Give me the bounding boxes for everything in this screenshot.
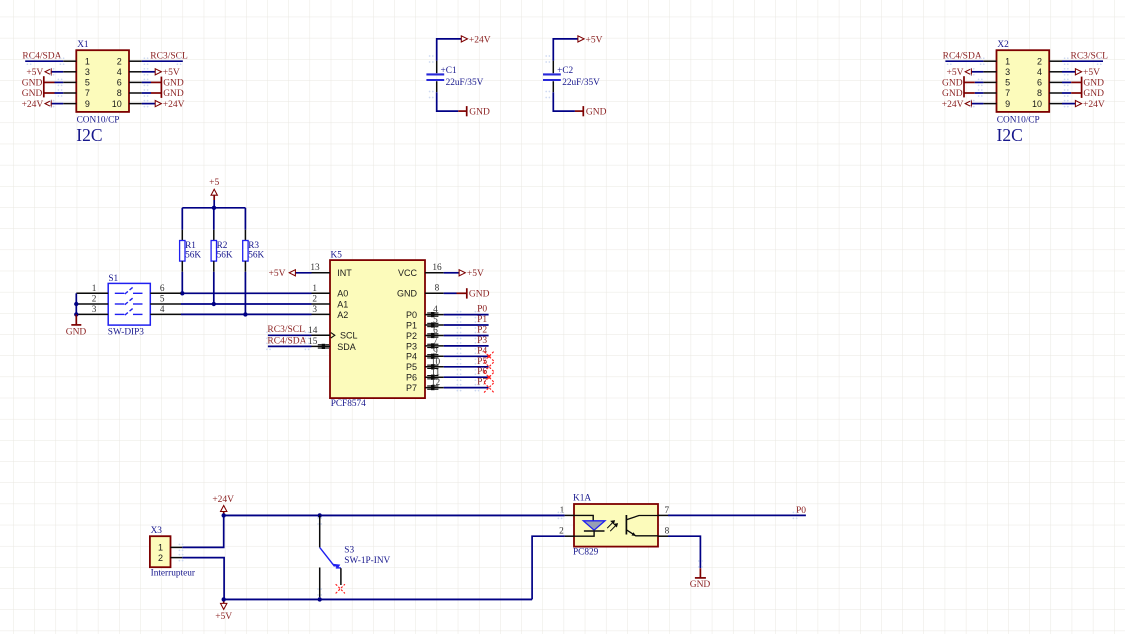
svg-text:SDA: SDA xyxy=(337,342,356,352)
svg-text:GND: GND xyxy=(469,290,490,300)
svg-text:P0: P0 xyxy=(796,506,806,516)
svg-text:+C2: +C2 xyxy=(557,66,573,76)
resistor R3 56K xyxy=(244,208,246,230)
svg-text:K5: K5 xyxy=(331,250,343,260)
connector X1 (CON10/CP) xyxy=(63,50,142,112)
junction xyxy=(318,597,322,601)
svg-text:+5V: +5V xyxy=(269,269,286,279)
svg-text:SW-1P-INV: SW-1P-INV xyxy=(344,556,390,566)
svg-text:7: 7 xyxy=(85,88,90,98)
svg-text:7: 7 xyxy=(433,337,438,347)
svg-text:+24V: +24V xyxy=(163,100,185,110)
svg-text:4: 4 xyxy=(117,67,122,77)
capacitor C1 plates xyxy=(426,74,444,80)
svg-text:+5V: +5V xyxy=(163,68,180,78)
svg-text:INT: INT xyxy=(337,268,352,278)
no-ERC marker on P5 xyxy=(484,362,493,371)
wire to +24V xyxy=(437,39,461,61)
pin 1 of X3 xyxy=(171,546,183,548)
wire vertex dots xyxy=(27,57,29,59)
wire S1 common to GND xyxy=(75,293,77,314)
pin 2 of S1 xyxy=(76,303,108,305)
svg-text:6: 6 xyxy=(160,284,165,294)
wire vertex dots xyxy=(317,517,319,519)
svg-text:SCL: SCL xyxy=(340,331,358,341)
svg-text:6: 6 xyxy=(1037,78,1042,88)
svg-text:P2: P2 xyxy=(477,326,487,336)
resistor R1 56K xyxy=(181,208,183,230)
power port GND (pin 5 of X1) xyxy=(55,81,64,83)
wire A2 net xyxy=(181,313,312,315)
svg-text:S3: S3 xyxy=(344,545,354,555)
wire vertex dots xyxy=(179,544,181,546)
wire A0 net xyxy=(181,292,312,294)
pin 4 of S1 xyxy=(150,313,181,315)
pin stub top of C1 xyxy=(436,61,438,73)
power port +5V xyxy=(223,599,225,603)
power port GND (pin 8 of X1) xyxy=(142,92,151,94)
pin stub top of C2 xyxy=(552,61,554,73)
svg-text:GND: GND xyxy=(163,79,184,89)
no-ERC marker on P6 xyxy=(484,373,493,382)
svg-text:2: 2 xyxy=(559,527,564,537)
power port +24V (pin 10 of X1) xyxy=(142,103,156,105)
svg-text:1: 1 xyxy=(560,506,565,516)
svg-text:8: 8 xyxy=(665,527,670,537)
svg-text:P1: P1 xyxy=(477,315,487,325)
power port +5V (pin 4 of X1) xyxy=(142,71,156,73)
svg-text:GND: GND xyxy=(1083,89,1104,99)
wire P0 net xyxy=(668,514,806,516)
svg-text:9: 9 xyxy=(85,99,90,109)
svg-text:14: 14 xyxy=(308,326,318,336)
pin 9 P4 xyxy=(425,355,444,357)
svg-text:+5V: +5V xyxy=(467,269,484,279)
svg-text:X1: X1 xyxy=(77,40,89,50)
optocoupler K1A PC829 xyxy=(574,504,658,547)
svg-text:P7: P7 xyxy=(477,378,487,388)
svg-text:+24V: +24V xyxy=(212,495,234,505)
wire +24V rail xyxy=(224,514,565,516)
junction xyxy=(180,291,184,295)
pin 6 of S1 xyxy=(150,292,181,294)
svg-text:10: 10 xyxy=(1032,99,1042,109)
svg-text:X2: X2 xyxy=(997,40,1009,50)
power port GND xyxy=(699,568,701,578)
pin 2 of X3 xyxy=(171,557,183,559)
svg-text:P5: P5 xyxy=(406,362,417,372)
svg-text:SW-DIP3: SW-DIP3 xyxy=(108,327,145,337)
wire P5 net xyxy=(457,363,459,365)
pin 7 of K1A xyxy=(658,514,668,516)
svg-text:4: 4 xyxy=(160,305,165,315)
pin 10 P5 xyxy=(425,366,444,368)
svg-text:RC3/SCL: RC3/SCL xyxy=(1071,51,1109,61)
connector X2 (CON10/CP) xyxy=(983,50,1062,112)
pin 11 P6 xyxy=(425,376,444,378)
pin stub bottom of C2 xyxy=(552,81,554,92)
wire P7 net xyxy=(457,384,459,386)
resistor R2 56K xyxy=(213,208,215,230)
svg-text:3: 3 xyxy=(1005,67,1010,77)
wire X3 pin1 to +24V rail xyxy=(182,515,223,547)
pin 1 A0 xyxy=(312,292,331,294)
no-ERC marker on P7 xyxy=(484,383,493,392)
pin 3 of S1 xyxy=(76,313,108,315)
svg-text:2: 2 xyxy=(1037,56,1042,66)
svg-text:5: 5 xyxy=(85,78,90,88)
svg-text:GND: GND xyxy=(22,79,43,89)
wire vertex dots xyxy=(947,57,949,59)
svg-text:12: 12 xyxy=(431,378,441,388)
switch S1 SW-DIP3 xyxy=(108,283,150,325)
svg-text:RC4/SDA: RC4/SDA xyxy=(22,51,61,61)
junction xyxy=(222,597,226,601)
svg-text:56K: 56K xyxy=(248,251,264,261)
svg-text:P4: P4 xyxy=(477,346,487,356)
svg-text:CON10/CP: CON10/CP xyxy=(77,115,120,125)
svg-text:6: 6 xyxy=(433,326,438,336)
svg-text:+5V: +5V xyxy=(1083,68,1100,78)
power port GND xyxy=(575,110,583,112)
svg-text:GND: GND xyxy=(1083,79,1104,89)
svg-text:S1: S1 xyxy=(108,274,118,284)
svg-text:+24V: +24V xyxy=(942,100,964,110)
power port +24V (pin 9 of X2) xyxy=(971,103,984,105)
phototransistor of K1A xyxy=(626,515,658,536)
wire P2 net xyxy=(457,332,459,334)
svg-text:X3: X3 xyxy=(151,526,163,536)
pin 4 P0 xyxy=(425,314,444,316)
pin 2 A1 xyxy=(312,303,331,305)
wire X3 pin2 to +5V rail xyxy=(182,558,224,600)
LED light arrows xyxy=(607,521,617,532)
svg-text:3: 3 xyxy=(85,67,90,77)
svg-text:1: 1 xyxy=(312,284,317,294)
wire vertex dots xyxy=(429,55,431,57)
svg-text:2: 2 xyxy=(158,553,163,563)
power port +24V (pin 9 of X1) xyxy=(51,103,64,105)
svg-text:P2: P2 xyxy=(406,331,417,341)
pin 1 of S1 xyxy=(76,292,108,294)
svg-text:GND: GND xyxy=(397,289,418,299)
svg-text:I2C: I2C xyxy=(76,125,102,145)
power port +5V (pin 3 of X1) xyxy=(51,71,64,73)
svg-text:A0: A0 xyxy=(337,289,348,299)
power port GND at pin 8 xyxy=(444,292,457,294)
svg-text:10: 10 xyxy=(431,357,441,367)
pin 12 P7 xyxy=(425,387,444,389)
no-ERC marker on P4 xyxy=(484,352,493,361)
wire RC3/SCL xyxy=(268,334,312,336)
pin 3 A2 xyxy=(312,313,331,315)
svg-text:P4: P4 xyxy=(406,352,417,362)
power port GND (pin 7 of X1) xyxy=(55,92,64,94)
svg-text:GND: GND xyxy=(690,580,711,590)
wire vertex dots xyxy=(545,55,547,57)
svg-text:A1: A1 xyxy=(337,299,348,309)
pin 13 INT xyxy=(312,272,331,274)
wire P6 net xyxy=(457,373,459,375)
svg-text:PC829: PC829 xyxy=(573,548,599,558)
svg-text:7: 7 xyxy=(1005,88,1010,98)
svg-text:GND: GND xyxy=(942,89,963,99)
pin 5 of S1 xyxy=(150,303,181,305)
power port GND (pin 6 of X1) xyxy=(142,81,151,83)
junction xyxy=(222,513,226,517)
pin 16 VCC xyxy=(425,272,444,274)
svg-text:P0: P0 xyxy=(477,305,487,315)
IC K5 PCF8574 xyxy=(330,260,425,398)
svg-text:+5V: +5V xyxy=(947,68,964,78)
pin 7 P3 xyxy=(425,345,444,347)
svg-text:RC4/SDA: RC4/SDA xyxy=(943,51,982,61)
LED of K1A xyxy=(574,515,593,520)
svg-text:P1: P1 xyxy=(406,320,417,330)
wire P1 net xyxy=(457,321,459,323)
power port +5V (pin 4 of X2) xyxy=(1062,71,1076,73)
power port +5V xyxy=(578,36,584,42)
svg-text:P7: P7 xyxy=(406,383,417,393)
svg-text:RC3/SCL: RC3/SCL xyxy=(267,325,305,335)
svg-text:PCF8574: PCF8574 xyxy=(331,399,366,409)
svg-text:P3: P3 xyxy=(406,341,417,351)
svg-text:8: 8 xyxy=(117,88,122,98)
svg-text:9: 9 xyxy=(433,347,438,357)
power port GND (pin 8 of X2) xyxy=(1062,92,1071,94)
svg-text:2: 2 xyxy=(117,56,122,66)
power port +5V at VCC xyxy=(444,272,460,274)
svg-text:1: 1 xyxy=(92,284,97,294)
svg-text:8: 8 xyxy=(1037,88,1042,98)
wire vertex dots xyxy=(698,560,700,562)
svg-text:22uF/35V: 22uF/35V xyxy=(446,78,484,88)
connector X3 xyxy=(150,536,171,567)
junction xyxy=(212,302,216,306)
svg-text:13: 13 xyxy=(310,263,320,273)
svg-text:3: 3 xyxy=(312,305,317,315)
pin 14 SCL xyxy=(312,334,331,336)
svg-text:P3: P3 xyxy=(477,336,487,346)
pin 1 of K1A xyxy=(565,514,574,516)
switch element xyxy=(115,292,125,294)
pin 5 P1 xyxy=(425,324,444,326)
svg-text:GND: GND xyxy=(66,327,87,337)
svg-text:11: 11 xyxy=(431,368,440,378)
svg-text:+C1: +C1 xyxy=(441,66,457,76)
no-ERC marker xyxy=(336,585,345,594)
power port +24V xyxy=(461,36,467,42)
pin 8 of K1A xyxy=(658,535,668,537)
svg-text:4: 4 xyxy=(433,305,438,315)
wire P3 net xyxy=(457,342,459,344)
svg-text:22uF/35V: 22uF/35V xyxy=(562,78,600,88)
wire K1A pin2 to +5V rail xyxy=(532,536,565,599)
wire RC4/SDA (pin 1 of X2) xyxy=(945,60,983,62)
svg-text:GND: GND xyxy=(942,79,963,89)
junction xyxy=(74,302,78,306)
svg-text:5: 5 xyxy=(433,316,438,326)
svg-text:10: 10 xyxy=(112,99,122,109)
svg-text:4: 4 xyxy=(1037,67,1042,77)
svg-text:P0: P0 xyxy=(406,310,417,320)
wire +5V rail xyxy=(224,598,532,600)
svg-text:I2C: I2C xyxy=(997,125,1023,145)
svg-text:5: 5 xyxy=(1005,78,1010,88)
svg-text:2: 2 xyxy=(92,295,97,305)
wire to GND xyxy=(553,92,575,111)
svg-text:7: 7 xyxy=(664,506,669,516)
wire K1A pin8 to GND xyxy=(668,536,700,568)
svg-text:56K: 56K xyxy=(185,251,201,261)
junction xyxy=(243,312,247,316)
pin 2 of K1A xyxy=(565,535,574,537)
wire to GND xyxy=(437,92,459,111)
svg-text:Interrupteur: Interrupteur xyxy=(151,568,196,578)
S3 right contact xyxy=(340,568,342,585)
junction xyxy=(318,513,322,517)
svg-text:+5V: +5V xyxy=(586,35,603,45)
svg-text:6: 6 xyxy=(117,78,122,88)
svg-text:GND: GND xyxy=(22,89,43,99)
svg-text:56K: 56K xyxy=(217,251,233,261)
svg-text:GND: GND xyxy=(163,89,184,99)
svg-text:+5: +5 xyxy=(209,178,219,188)
svg-text:8: 8 xyxy=(435,284,440,294)
wire RC3/SCL (pin 2 of X2) xyxy=(1062,60,1103,62)
svg-text:P6: P6 xyxy=(477,367,487,377)
pin 15 SDA xyxy=(312,345,331,347)
wire to +5V xyxy=(553,39,577,61)
pin 8 GND xyxy=(425,292,444,294)
wire vertex dots xyxy=(266,331,268,333)
svg-text:RC4/SDA: RC4/SDA xyxy=(267,336,306,346)
wire RC3/SCL (pin 2 of X1) xyxy=(142,60,183,62)
pin stub bottom of C1 xyxy=(436,81,438,92)
svg-text:1: 1 xyxy=(158,543,163,553)
svg-text:A2: A2 xyxy=(337,310,348,320)
svg-text:+5V: +5V xyxy=(26,68,43,78)
wire resistor top rail xyxy=(182,207,245,209)
svg-text:GND: GND xyxy=(586,108,607,118)
svg-text:5: 5 xyxy=(160,295,165,305)
svg-text:15: 15 xyxy=(308,337,318,347)
wire A1 net xyxy=(181,303,312,305)
switch element xyxy=(115,313,125,315)
wire P0 net xyxy=(457,311,459,313)
power port GND xyxy=(458,110,466,112)
S3 left contact xyxy=(319,568,321,598)
svg-text:VCC: VCC xyxy=(398,268,418,278)
svg-text:P6: P6 xyxy=(406,373,417,383)
pin 6 P2 xyxy=(425,335,444,337)
svg-text:GND: GND xyxy=(469,108,490,118)
capacitor C2 plates xyxy=(543,74,561,80)
svg-text:+5V: +5V xyxy=(215,612,232,622)
power port +5V (pin 3 of X2) xyxy=(971,71,984,73)
power port +24V (pin 10 of X2) xyxy=(1062,103,1076,105)
svg-text:+24V: +24V xyxy=(1083,100,1105,110)
power port +5V at INT xyxy=(295,272,312,274)
svg-text:CON10/CP: CON10/CP xyxy=(997,115,1040,125)
power port GND (pin 7 of X2) xyxy=(975,92,984,94)
switch element xyxy=(115,303,125,305)
wire P4 net xyxy=(457,352,459,354)
svg-text:3: 3 xyxy=(92,305,97,315)
svg-text:2: 2 xyxy=(312,295,317,305)
svg-text:9: 9 xyxy=(1005,99,1010,109)
svg-text:+24V: +24V xyxy=(469,35,491,45)
svg-text:RC3/SCL: RC3/SCL xyxy=(150,51,188,61)
svg-text:K1A: K1A xyxy=(573,493,591,503)
svg-text:1: 1 xyxy=(1005,56,1010,66)
wire RC4/SDA xyxy=(268,345,312,347)
wire RC4/SDA (pin 1 of X1) xyxy=(25,60,63,62)
power port GND (pin 5 of X2) xyxy=(975,81,984,83)
svg-text:P5: P5 xyxy=(477,357,487,367)
power port GND xyxy=(75,314,77,325)
svg-text:+24V: +24V xyxy=(22,100,44,110)
power port GND (pin 6 of X2) xyxy=(1062,81,1071,83)
svg-text:16: 16 xyxy=(432,263,442,273)
junction xyxy=(74,312,78,316)
junction xyxy=(212,206,216,210)
svg-text:1: 1 xyxy=(85,56,90,66)
